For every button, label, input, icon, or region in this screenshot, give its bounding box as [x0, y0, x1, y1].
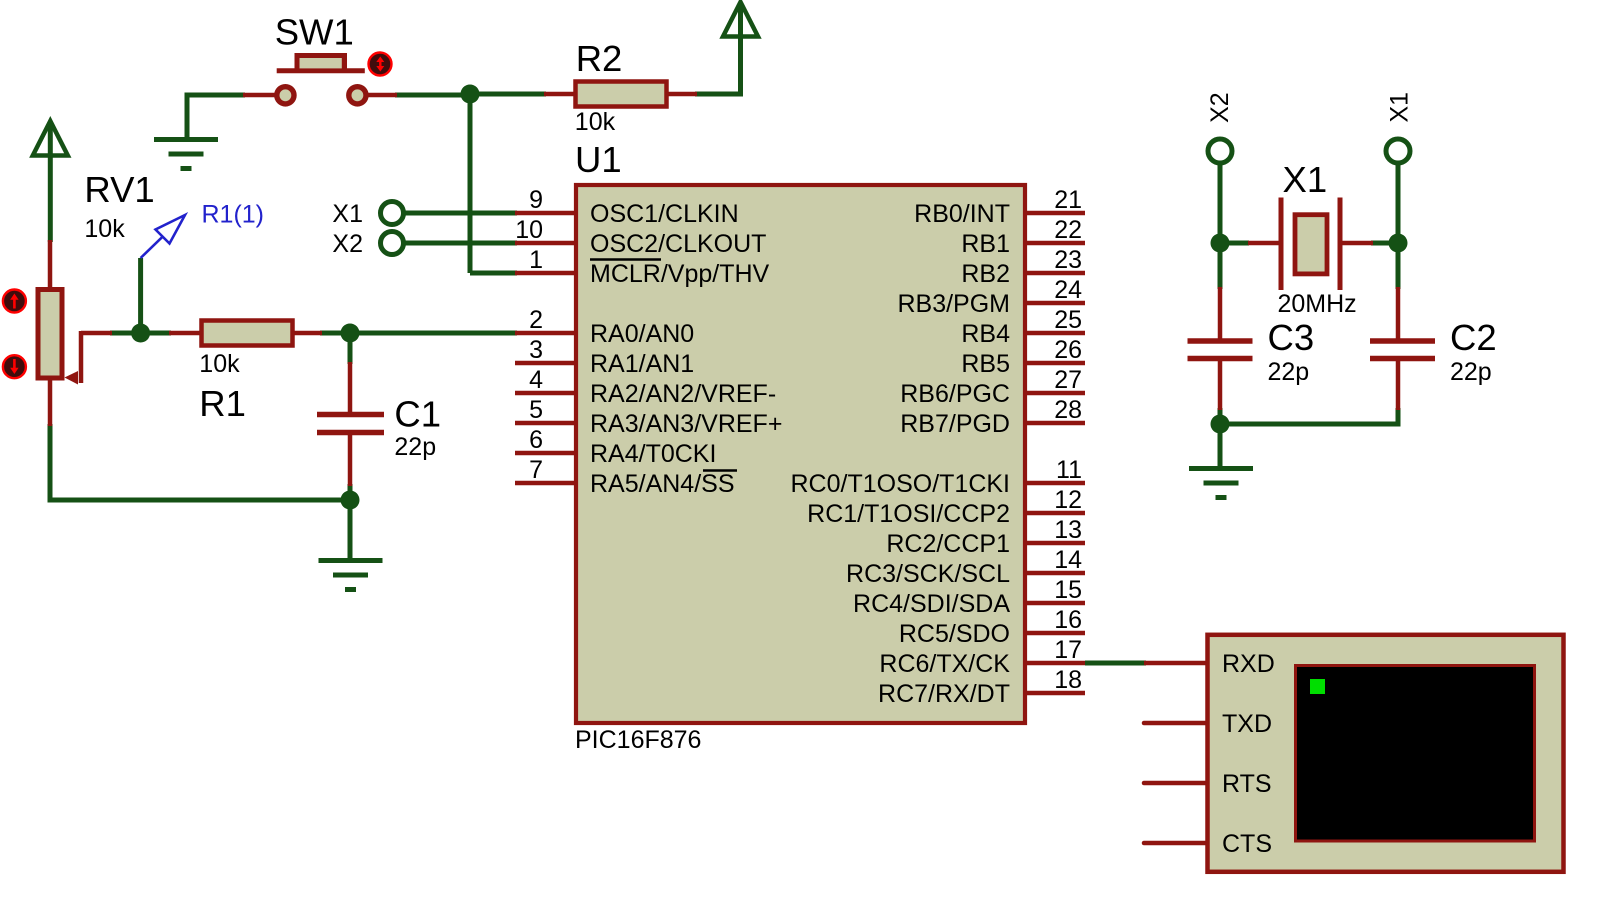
svg-text:10k: 10k	[84, 215, 125, 243]
svg-text:SW1: SW1	[275, 12, 354, 53]
svg-text:4: 4	[529, 366, 543, 394]
svg-text:RB3/PGM: RB3/PGM	[897, 290, 1010, 318]
svg-text:10: 10	[515, 216, 543, 244]
svg-text:22p: 22p	[1450, 358, 1492, 386]
svg-text:RC4/SDI/SDA: RC4/SDI/SDA	[853, 590, 1010, 618]
svg-text:RA4/T0CKI: RA4/T0CKI	[590, 440, 716, 468]
svg-text:3: 3	[529, 336, 543, 364]
svg-text:X1: X1	[332, 200, 363, 228]
svg-text:27: 27	[1054, 366, 1082, 394]
svg-text:26: 26	[1054, 336, 1082, 364]
svg-text:17: 17	[1054, 636, 1082, 664]
svg-text:RA0/AN0: RA0/AN0	[590, 320, 694, 348]
svg-text:X2: X2	[1206, 92, 1234, 123]
svg-text:15: 15	[1054, 576, 1082, 604]
svg-text:RC3/SCK/SCL: RC3/SCK/SCL	[846, 560, 1010, 588]
svg-text:OSC2/CLKOUT: OSC2/CLKOUT	[590, 230, 766, 258]
svg-text:23: 23	[1054, 246, 1082, 274]
svg-text:28: 28	[1054, 396, 1082, 424]
svg-text:6: 6	[529, 426, 543, 454]
svg-text:22p: 22p	[1268, 358, 1310, 386]
svg-text:RV1: RV1	[84, 169, 154, 210]
svg-text:OSC1/CLKIN: OSC1/CLKIN	[590, 200, 739, 228]
svg-text:12: 12	[1054, 486, 1082, 514]
svg-text:5: 5	[529, 396, 543, 424]
svg-text:RTS: RTS	[1222, 770, 1272, 798]
svg-text:X1: X1	[1283, 159, 1328, 200]
svg-text:RA2/AN2/VREF-: RA2/AN2/VREF-	[590, 380, 776, 408]
svg-text:25: 25	[1054, 306, 1082, 334]
svg-text:RB2: RB2	[961, 260, 1010, 288]
svg-text:21: 21	[1054, 186, 1082, 214]
svg-text:MCLR/Vpp/THV: MCLR/Vpp/THV	[590, 260, 770, 288]
svg-text:10k: 10k	[575, 108, 616, 136]
svg-text:18: 18	[1054, 666, 1082, 694]
svg-text:RC2/CCP1: RC2/CCP1	[886, 530, 1010, 558]
svg-text:22: 22	[1054, 216, 1082, 244]
svg-text:20MHz: 20MHz	[1278, 290, 1357, 318]
svg-text:RC0/T1OSO/T1CKI: RC0/T1OSO/T1CKI	[791, 470, 1011, 498]
svg-text:7: 7	[529, 456, 543, 484]
svg-text:24: 24	[1054, 276, 1082, 304]
svg-text:22p: 22p	[394, 433, 436, 461]
svg-text:1: 1	[529, 246, 543, 274]
svg-text:C2: C2	[1450, 317, 1497, 358]
svg-text:RB4: RB4	[961, 320, 1010, 348]
svg-text:RC6/TX/CK: RC6/TX/CK	[879, 650, 1010, 678]
svg-text:RXD: RXD	[1222, 650, 1275, 678]
svg-text:RB5: RB5	[961, 350, 1010, 378]
svg-text:RC1/T1OSI/CCP2: RC1/T1OSI/CCP2	[807, 500, 1010, 528]
svg-text:2: 2	[529, 306, 543, 334]
svg-text:RC5/SDO: RC5/SDO	[899, 620, 1010, 648]
svg-text:R2: R2	[576, 38, 623, 79]
svg-text:C1: C1	[394, 394, 441, 435]
svg-text:RB1: RB1	[961, 230, 1010, 258]
svg-text:RC7/RX/DT: RC7/RX/DT	[878, 680, 1010, 708]
svg-text:R1(1): R1(1)	[202, 201, 265, 229]
svg-text:10k: 10k	[199, 350, 240, 378]
svg-text:CTS: CTS	[1222, 830, 1272, 858]
svg-text:16: 16	[1054, 606, 1082, 634]
svg-text:9: 9	[529, 186, 543, 214]
svg-text:RA5/AN4/SS: RA5/AN4/SS	[590, 470, 735, 498]
svg-text:X2: X2	[332, 230, 363, 258]
svg-text:RB0/INT: RB0/INT	[914, 200, 1010, 228]
svg-text:RA1/AN1: RA1/AN1	[590, 350, 694, 378]
svg-text:C3: C3	[1268, 317, 1315, 358]
svg-text:R1: R1	[199, 383, 246, 424]
svg-text:13: 13	[1054, 516, 1082, 544]
svg-text:U1: U1	[575, 139, 622, 180]
svg-text:TXD: TXD	[1222, 710, 1272, 738]
svg-text:PIC16F876: PIC16F876	[575, 726, 701, 754]
svg-text:14: 14	[1054, 546, 1082, 574]
svg-text:RB7/PGD: RB7/PGD	[900, 410, 1010, 438]
svg-text:11: 11	[1056, 456, 1082, 484]
svg-text:RB6/PGC: RB6/PGC	[900, 380, 1010, 408]
svg-text:X1: X1	[1386, 92, 1414, 123]
svg-text:RA3/AN3/VREF+: RA3/AN3/VREF+	[590, 410, 782, 438]
